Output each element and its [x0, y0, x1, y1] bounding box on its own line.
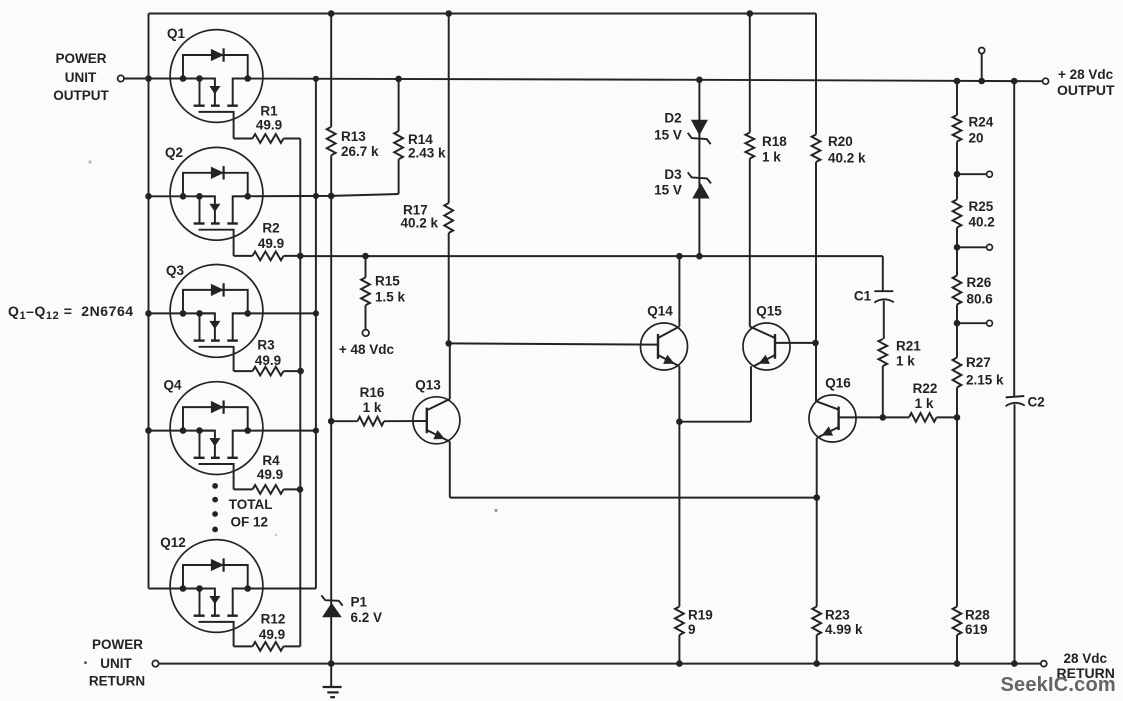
svg-text:SeekIC.com: SeekIC.com [1001, 674, 1116, 696]
svg-text:R15: R15 [375, 274, 400, 289]
svg-text:RETURN: RETURN [89, 674, 145, 689]
svg-text:R4: R4 [262, 453, 280, 468]
svg-text:6.2 V: 6.2 V [351, 610, 383, 625]
svg-text:2.43 k: 2.43 k [408, 146, 446, 161]
svg-text:1 k: 1 k [915, 396, 934, 411]
svg-text:80.6: 80.6 [967, 292, 994, 307]
svg-text:Q13: Q13 [415, 378, 441, 393]
svg-text:Q16: Q16 [825, 376, 851, 391]
svg-text:+ 28 Vdc: + 28 Vdc [1058, 67, 1114, 82]
svg-text:R21: R21 [896, 339, 921, 354]
svg-text:Q3: Q3 [166, 263, 185, 278]
svg-text:R26: R26 [967, 275, 992, 290]
svg-text:Q1: Q1 [167, 26, 186, 41]
svg-text:1 k: 1 k [896, 354, 915, 369]
svg-text:49.9: 49.9 [257, 467, 283, 482]
svg-text:1 k: 1 k [762, 150, 781, 165]
svg-text:R1: R1 [260, 104, 278, 119]
svg-text:R18: R18 [762, 134, 787, 149]
svg-text:D3: D3 [664, 167, 682, 182]
svg-text:R28: R28 [965, 608, 990, 623]
svg-text:1.5 k: 1.5 k [375, 290, 406, 305]
svg-text:C2: C2 [1028, 395, 1045, 410]
svg-text:R20: R20 [828, 134, 853, 149]
svg-text:R24: R24 [969, 115, 994, 130]
svg-text:49.9: 49.9 [255, 353, 281, 368]
svg-text:40.2 k: 40.2 k [401, 216, 439, 231]
svg-text:R22: R22 [913, 381, 938, 396]
svg-text:619: 619 [965, 622, 988, 637]
svg-text:15 V: 15 V [654, 128, 682, 143]
svg-text:49.9: 49.9 [259, 627, 285, 642]
svg-text:R19: R19 [688, 608, 713, 623]
svg-text:C1: C1 [854, 289, 872, 304]
svg-text:40.2: 40.2 [969, 215, 995, 230]
svg-text:28 Vdc: 28 Vdc [1064, 651, 1108, 666]
svg-text:4.99 k: 4.99 k [825, 622, 863, 637]
svg-text:Q4: Q4 [163, 378, 182, 393]
svg-text:2.15 k: 2.15 k [966, 373, 1004, 388]
svg-text:D2: D2 [664, 111, 681, 126]
svg-text:49.9: 49.9 [258, 236, 284, 251]
svg-text:OUTPUT: OUTPUT [1057, 82, 1115, 98]
svg-text:1 k: 1 k [363, 400, 382, 415]
svg-text:20: 20 [969, 131, 984, 146]
svg-text:TOTAL: TOTAL [229, 497, 273, 512]
svg-text:40.2 k: 40.2 k [828, 151, 866, 166]
svg-text:Q12: Q12 [160, 535, 186, 550]
svg-text:UNIT: UNIT [65, 70, 97, 85]
svg-text:Q15: Q15 [756, 304, 782, 319]
svg-text:+ 48 Vdc: + 48 Vdc [339, 342, 395, 357]
svg-text:R16: R16 [360, 385, 385, 400]
svg-text:9: 9 [688, 622, 696, 637]
svg-text:R25: R25 [969, 199, 994, 214]
svg-text:R27: R27 [966, 355, 991, 370]
svg-text:R12: R12 [261, 612, 286, 627]
svg-text:26.7 k: 26.7 k [341, 144, 379, 159]
svg-text:15 V: 15 V [654, 183, 682, 198]
svg-text:49.9: 49.9 [256, 118, 282, 133]
svg-text:OUTPUT: OUTPUT [53, 88, 109, 103]
svg-text:UNIT: UNIT [100, 656, 132, 671]
svg-text:R23: R23 [825, 608, 850, 623]
svg-text:POWER: POWER [55, 51, 106, 66]
svg-text:POWER: POWER [92, 637, 143, 652]
svg-text:Q2: Q2 [165, 145, 183, 160]
svg-text:R2: R2 [262, 221, 279, 236]
svg-text:OF 12: OF 12 [231, 515, 269, 530]
svg-text:R13: R13 [341, 129, 366, 144]
svg-text:P1: P1 [351, 595, 368, 610]
svg-text:Q14: Q14 [647, 304, 673, 319]
svg-text:R3: R3 [257, 338, 275, 353]
